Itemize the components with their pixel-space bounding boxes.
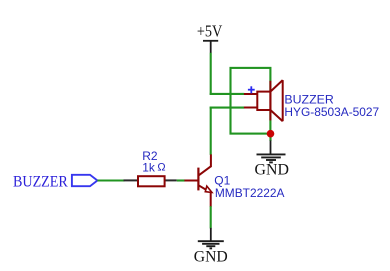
resistor R2 bbox=[124, 176, 177, 186]
power +5V symbol bbox=[203, 41, 218, 53]
wire junction to GND bbox=[269, 134, 271, 141]
wire +5V vertical bbox=[210, 53, 212, 95]
svg-text:1k: 1k bbox=[142, 161, 156, 175]
wire collector horizontal bbox=[210, 107, 245, 109]
buzzer BZ (BUZZER HYG-8503A-5027) bbox=[244, 80, 283, 121]
wire resistor to base bbox=[177, 179, 185, 181]
ground symbol bottom bbox=[198, 228, 224, 249]
junction dot bbox=[267, 130, 275, 138]
wire collector vertical bbox=[210, 107, 212, 155]
wire loop rectangle around buzzer bbox=[231, 68, 271, 134]
svg-text:GND: GND bbox=[255, 162, 289, 179]
buzzer plus mark bbox=[248, 86, 255, 93]
svg-text:GND: GND bbox=[194, 249, 228, 266]
transistor Q1 bbox=[184, 154, 212, 206]
svg-text:+5V: +5V bbox=[197, 22, 222, 41]
wire port to resistor bbox=[97, 179, 124, 181]
svg-text:Ω: Ω bbox=[157, 162, 165, 174]
port BUZZER bbox=[72, 175, 98, 186]
svg-text:BUZZER: BUZZER bbox=[13, 173, 68, 190]
svg-text:MMBT2222A: MMBT2222A bbox=[215, 186, 285, 200]
wire to buzzer plus pin bbox=[210, 93, 245, 95]
ground symbol right bbox=[257, 140, 286, 162]
wire emitter to ground bbox=[210, 206, 212, 228]
svg-text:HYG-8503A-5027: HYG-8503A-5027 bbox=[284, 105, 379, 119]
